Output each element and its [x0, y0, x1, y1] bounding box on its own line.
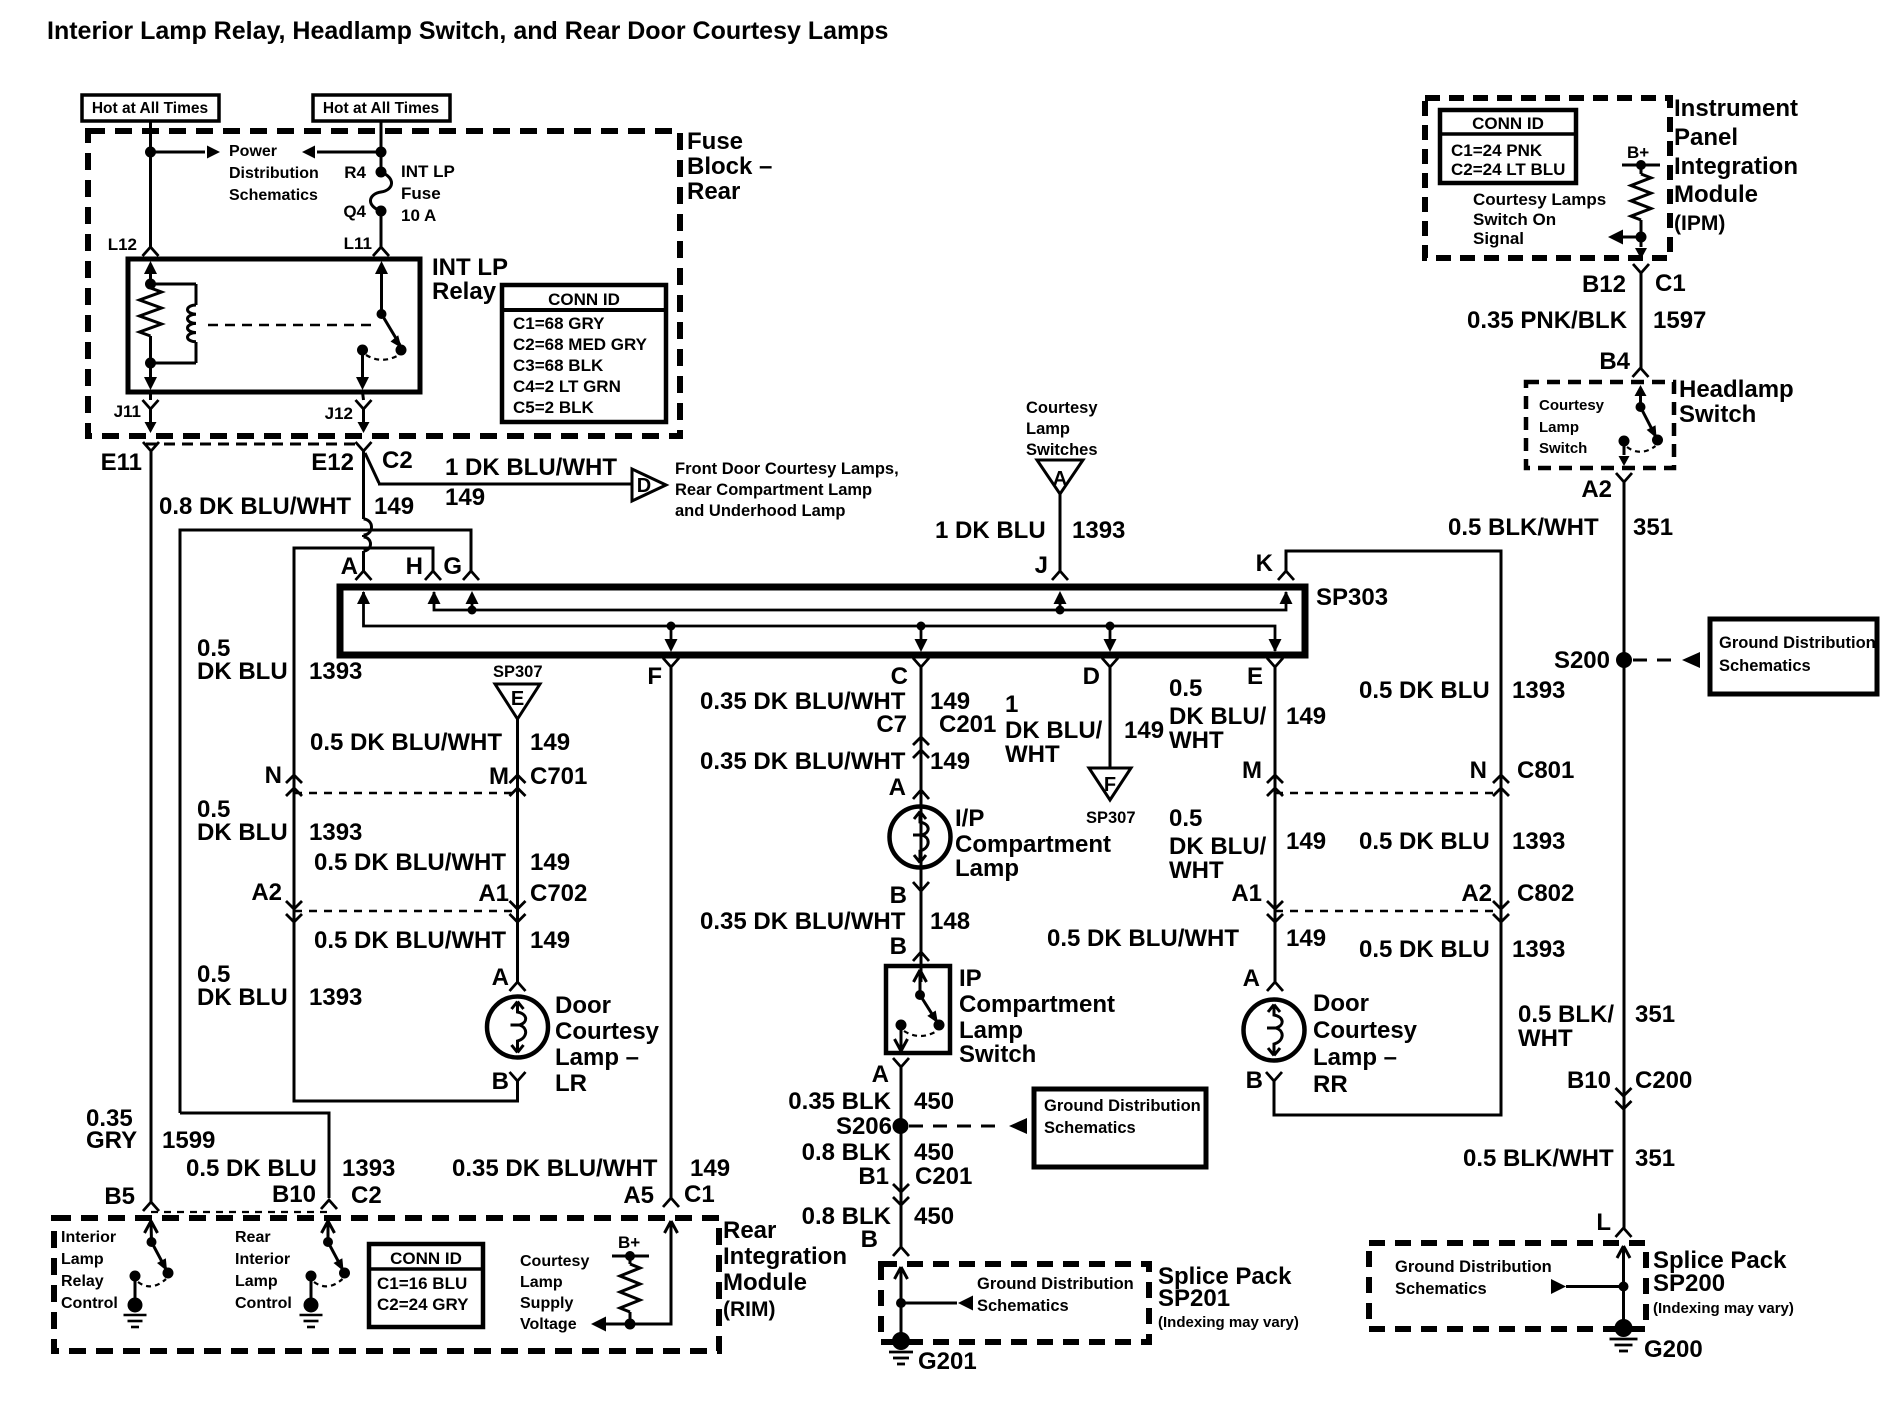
svg-text:Compartment: Compartment	[955, 831, 1111, 858]
off-page triangle D	[632, 469, 666, 501]
svg-text:Hot at All Times: Hot at All Times	[92, 100, 208, 117]
wire B10 feed to splice G	[180, 530, 471, 1113]
svg-text:1393: 1393	[309, 658, 362, 685]
svg-text:C7: C7	[876, 711, 907, 738]
svg-text:0.5: 0.5	[1169, 675, 1202, 702]
svg-text:A: A	[492, 964, 509, 991]
relay switch pivot	[377, 309, 387, 319]
svg-text:Lamp: Lamp	[520, 1274, 563, 1291]
dashed reference to ground distribution (S200)	[1633, 659, 1677, 662]
svg-text:A2: A2	[1581, 476, 1612, 503]
svg-text:0.35 DK BLU/WHT: 0.35 DK BLU/WHT	[452, 1155, 658, 1182]
power label box Hot at All Times (right)	[313, 95, 450, 121]
rear integration module dashed box	[54, 1218, 719, 1351]
svg-text:A2: A2	[251, 879, 282, 906]
svg-text:Interior: Interior	[61, 1229, 116, 1246]
node above fuse	[376, 147, 387, 158]
svg-text:R4: R4	[344, 163, 366, 182]
svg-text:E: E	[511, 688, 524, 710]
svg-text:M: M	[489, 763, 509, 790]
off-page triangle F SP307	[1089, 768, 1131, 800]
svg-text:0.35 BLK: 0.35 BLK	[788, 1088, 891, 1115]
CONN ID table (IPM)	[1440, 110, 1576, 183]
off-page triangle A (courtesy lamp switches)	[1037, 460, 1083, 494]
svg-text:Switch On: Switch On	[1473, 210, 1556, 229]
svg-text:A1: A1	[478, 880, 509, 907]
wire lamp RR return loop	[1274, 919, 1501, 1115]
svg-text:0.5 DK BLU/WHT: 0.5 DK BLU/WHT	[314, 927, 506, 954]
svg-text:Voltage: Voltage	[520, 1316, 577, 1333]
svg-text:Door: Door	[1313, 990, 1369, 1017]
headlamp switch output arrow	[1623, 441, 1626, 455]
svg-text:C1: C1	[1655, 270, 1686, 297]
svg-text:SP307: SP307	[493, 663, 543, 681]
RIM node	[625, 1319, 636, 1330]
svg-text:149: 149	[1124, 717, 1164, 744]
svg-text:Interior: Interior	[235, 1251, 290, 1268]
svg-text:J11: J11	[114, 402, 141, 421]
svg-text:C1=24 PNK: C1=24 PNK	[1451, 141, 1543, 160]
svg-text:0.35 PNK/BLK: 0.35 PNK/BLK	[1467, 307, 1628, 334]
svg-text:149: 149	[1286, 828, 1326, 855]
wire fuse to L11	[380, 211, 383, 247]
svg-text:1393: 1393	[309, 819, 362, 846]
svg-text:Hot at All Times: Hot at All Times	[323, 100, 439, 117]
svg-text:0.8 BLK: 0.8 BLK	[802, 1203, 892, 1230]
wire lamp LR B return loop	[294, 911, 518, 1101]
dashed reference to ground distribution	[909, 1125, 1004, 1128]
svg-text:SP200: SP200	[1653, 1270, 1725, 1297]
relay actuation dashed link	[208, 324, 376, 326]
wire lamp return through C701-C702	[293, 788, 296, 911]
connector C2 dashed line	[146, 443, 357, 446]
svg-text:149: 149	[530, 729, 570, 756]
svg-text:M: M	[1242, 757, 1262, 784]
svg-text:Module: Module	[723, 1269, 807, 1296]
svg-text:Schematics: Schematics	[977, 1297, 1069, 1315]
svg-text:N: N	[1470, 757, 1487, 784]
wire SP307 E to lamp LR	[516, 719, 519, 982]
svg-text:B5: B5	[104, 1183, 135, 1210]
svg-text:D: D	[637, 475, 651, 497]
svg-text:C2: C2	[351, 1182, 382, 1209]
SP303 arrow E	[1269, 639, 1282, 652]
IPM node	[1636, 232, 1647, 243]
svg-text:INT LP: INT LP	[401, 162, 455, 181]
RIM switch 1 ground	[134, 1276, 137, 1301]
svg-text:Compartment: Compartment	[959, 991, 1115, 1018]
svg-text:Supply: Supply	[520, 1295, 573, 1312]
svg-text:C201: C201	[939, 711, 996, 738]
relay resistor	[140, 288, 162, 336]
svg-text:G200: G200	[1644, 1336, 1703, 1363]
svg-text:B1: B1	[858, 1163, 889, 1190]
svg-text:149: 149	[930, 748, 970, 775]
SP303 arrow K	[1280, 591, 1293, 604]
svg-text:Ground Distribution: Ground Distribution	[1395, 1258, 1552, 1276]
svg-text:1393: 1393	[1512, 828, 1565, 855]
RIM wire to A5	[630, 1221, 671, 1324]
wire 1 DK BLU from triangle A to J	[1059, 494, 1062, 571]
wire through C201	[900, 1180, 903, 1204]
svg-text:DK BLU/: DK BLU/	[1169, 833, 1267, 860]
svg-text:0.5 BLK/WHT: 0.5 BLK/WHT	[1463, 1145, 1614, 1172]
svg-text:C: C	[891, 663, 908, 690]
IP compartment lamp switch box	[886, 966, 950, 1053]
svg-text:S200: S200	[1554, 647, 1610, 674]
svg-text:1597: 1597	[1653, 307, 1706, 334]
svg-text:B: B	[861, 1226, 878, 1253]
relay switch feed arrow (L11 side)	[375, 261, 388, 274]
svg-text:WHT: WHT	[1005, 741, 1060, 768]
svg-text:0.5 DK BLU/WHT: 0.5 DK BLU/WHT	[310, 729, 502, 756]
svg-text:K: K	[1256, 550, 1274, 577]
svg-text:149: 149	[445, 484, 485, 511]
svg-text:Lamp: Lamp	[1026, 420, 1070, 438]
svg-text:WHT: WHT	[1518, 1025, 1573, 1052]
svg-text:1393: 1393	[342, 1155, 395, 1182]
svg-text:C1=68 GRY: C1=68 GRY	[513, 314, 605, 333]
svg-text:A: A	[1243, 965, 1260, 992]
svg-text:0.5 DK BLU: 0.5 DK BLU	[1359, 828, 1490, 855]
ground distribution schematics box (S200)	[1710, 619, 1877, 694]
svg-text:Panel: Panel	[1674, 124, 1738, 151]
IP lamp switch symbol	[914, 970, 921, 982]
svg-text:Ground Distribution: Ground Distribution	[1044, 1097, 1201, 1115]
svg-text:N: N	[265, 762, 282, 789]
wire from left Hot at All Times (L12 feed)	[149, 121, 152, 247]
svg-text:1: 1	[1005, 691, 1018, 718]
IPM pull-up resistor	[1640, 165, 1643, 174]
svg-text:149: 149	[1286, 703, 1326, 730]
svg-text:CONN ID: CONN ID	[390, 1249, 462, 1268]
fuse block - rear dashed box	[88, 131, 680, 436]
svg-text:C2=24 GRY: C2=24 GRY	[377, 1295, 469, 1314]
relay coil output wire	[149, 336, 152, 378]
SP303 arrow G	[471, 601, 474, 610]
svg-text:Fuse: Fuse	[401, 184, 441, 203]
wire splice C down	[920, 667, 923, 982]
svg-text:Lamp –: Lamp –	[1313, 1044, 1397, 1071]
relay coil	[151, 283, 197, 286]
svg-text:Ground Distribution: Ground Distribution	[1719, 634, 1876, 652]
relay switch output wire	[361, 350, 364, 377]
SP200 junction node	[1619, 1282, 1629, 1292]
wire S206 to C201 0.8 BLK 450	[900, 1126, 903, 1184]
svg-text:Schematics: Schematics	[1044, 1119, 1136, 1137]
svg-text:C2=24 LT BLU: C2=24 LT BLU	[1451, 160, 1565, 179]
svg-text:Rear Compartment Lamp: Rear Compartment Lamp	[675, 481, 872, 499]
svg-text:Control: Control	[235, 1295, 292, 1312]
svg-text:A: A	[889, 774, 906, 801]
SP303 inner line lower	[364, 592, 1276, 651]
svg-text:A: A	[872, 1061, 889, 1088]
IPM courtesy lamps switch on signal arrow	[1608, 230, 1623, 245]
svg-text:IP: IP	[959, 965, 982, 992]
svg-text:A: A	[341, 553, 358, 580]
wire 0.5 BLK/WHT 351 (upper)	[1623, 482, 1626, 1228]
svg-text:351: 351	[1635, 1145, 1675, 1172]
power label box Hot at All Times (left)	[82, 95, 219, 121]
IPM dashed box	[1425, 98, 1670, 258]
svg-text:Courtesy Lamps: Courtesy Lamps	[1473, 190, 1606, 209]
svg-text:C802: C802	[1517, 880, 1574, 907]
SP201 input arrow	[895, 1267, 902, 1279]
svg-text:C200: C200	[1635, 1067, 1692, 1094]
wire from right Hot at All Times (fuse feed)	[380, 121, 383, 168]
svg-text:G201: G201	[918, 1348, 977, 1375]
svg-text:Rear: Rear	[723, 1217, 776, 1244]
svg-text:Door: Door	[555, 992, 611, 1019]
svg-text:0.5 BLK/WHT: 0.5 BLK/WHT	[1448, 514, 1599, 541]
splice pack SP303 box	[340, 587, 1305, 655]
RIM supply voltage arrow	[591, 1317, 606, 1332]
svg-text:B: B	[890, 882, 907, 909]
svg-text:B10: B10	[272, 1181, 316, 1208]
wire lamp to switch 0.35 DK BLU/WHT 148	[920, 887, 923, 966]
svg-text:351: 351	[1633, 514, 1673, 541]
ground distribution schematics box (S206)	[1034, 1089, 1206, 1167]
svg-text:Switch: Switch	[959, 1041, 1036, 1068]
SP303 node D	[1106, 622, 1115, 631]
CONN ID table (RIM)	[369, 1244, 483, 1327]
svg-text:1 DK BLU/WHT: 1 DK BLU/WHT	[445, 454, 617, 481]
fuse R4 terminal	[376, 167, 387, 178]
IPM output arrow	[1640, 237, 1643, 247]
svg-text:WHT: WHT	[1169, 857, 1224, 884]
svg-text:1393: 1393	[1512, 936, 1565, 963]
svg-text:148: 148	[930, 908, 970, 935]
splice pack SP200 dashed box	[1369, 1243, 1646, 1329]
svg-text:F: F	[647, 663, 662, 690]
svg-text:Relay: Relay	[432, 278, 497, 305]
svg-text:Schematics: Schematics	[1719, 657, 1811, 675]
svg-text:B10: B10	[1567, 1067, 1611, 1094]
SP303 arrow D	[1109, 626, 1112, 641]
svg-text:Signal: Signal	[1473, 229, 1524, 248]
arrow to Power Distribution Schematics	[151, 151, 206, 154]
svg-text:0.8 DK BLU/WHT: 0.8 DK BLU/WHT	[159, 493, 351, 520]
SP303 arrow H	[428, 591, 441, 604]
svg-text:CONN ID: CONN ID	[1472, 114, 1544, 133]
svg-text:J12: J12	[325, 404, 353, 423]
svg-text:SP201: SP201	[1158, 1285, 1230, 1312]
svg-text:1393: 1393	[1512, 677, 1565, 704]
svg-text:1 DK BLU: 1 DK BLU	[935, 517, 1046, 544]
svg-text:Block –: Block –	[687, 153, 772, 180]
svg-text:L11: L11	[344, 234, 372, 253]
svg-text:10 A: 10 A	[401, 206, 436, 225]
I/P compartment lamp	[890, 807, 951, 868]
SP303 arrow F	[670, 626, 673, 641]
ground G200	[1615, 1319, 1633, 1337]
svg-text:450: 450	[914, 1088, 954, 1115]
svg-text:GRY: GRY	[86, 1127, 137, 1154]
svg-text:C3=68 BLK: C3=68 BLK	[513, 356, 604, 375]
svg-text:Headlamp: Headlamp	[1679, 376, 1794, 403]
SP303 inner line upper	[434, 592, 1286, 610]
wire splice D down	[1109, 667, 1112, 768]
svg-text:B: B	[890, 933, 907, 960]
relay coil top node	[145, 279, 156, 290]
relay box INT LP Relay	[128, 259, 420, 392]
svg-text:C201: C201	[915, 1163, 972, 1190]
svg-text:Integration: Integration	[1674, 153, 1798, 180]
svg-text:Lamp: Lamp	[955, 855, 1019, 882]
svg-text:(IPM): (IPM)	[1674, 212, 1725, 235]
svg-text:Switch: Switch	[1539, 440, 1587, 457]
svg-text:C702: C702	[530, 880, 587, 907]
svg-text:I/P: I/P	[955, 805, 984, 832]
SP303 arrow C	[920, 626, 923, 641]
svg-text:0.35 DK BLU/WHT: 0.35 DK BLU/WHT	[700, 908, 906, 935]
svg-text:DK BLU: DK BLU	[197, 984, 288, 1011]
connector pin J12	[363, 392, 364, 400]
svg-text:Q4: Q4	[343, 202, 366, 221]
svg-text:C1: C1	[684, 1181, 715, 1208]
SP303 node C	[917, 622, 926, 631]
svg-text:Lamp: Lamp	[1539, 419, 1579, 436]
svg-text:0.5 DK BLU: 0.5 DK BLU	[186, 1155, 317, 1182]
svg-text:L12: L12	[108, 235, 137, 254]
svg-text:C701: C701	[530, 763, 587, 790]
CONN ID table (fuse block)	[502, 285, 666, 422]
svg-text:149: 149	[374, 493, 414, 520]
svg-text:D: D	[1083, 663, 1100, 690]
SP303 node G	[468, 606, 477, 615]
wire F to A5 (0.35 DK BLU/WHT)	[670, 667, 673, 1198]
svg-text:E12: E12	[311, 449, 354, 476]
svg-text:450: 450	[914, 1203, 954, 1230]
svg-text:0.35 DK BLU/WHT: 0.35 DK BLU/WHT	[700, 688, 906, 715]
svg-text:0.35 DK BLU/WHT: 0.35 DK BLU/WHT	[700, 748, 906, 775]
svg-text:J: J	[1035, 552, 1048, 579]
svg-text:DK BLU/: DK BLU/	[1169, 703, 1267, 730]
svg-text:0.5 DK BLU: 0.5 DK BLU	[1359, 677, 1490, 704]
svg-text:LR: LR	[555, 1070, 587, 1097]
svg-text:E11: E11	[101, 449, 142, 476]
svg-text:A2: A2	[1461, 880, 1492, 907]
connector C802 dashed line	[1275, 910, 1501, 912]
wire E11 to B5 (0.35 GRY)	[150, 451, 153, 1202]
svg-text:Lamp: Lamp	[959, 1017, 1023, 1044]
svg-text:A1: A1	[1231, 880, 1262, 907]
svg-text:149: 149	[1286, 925, 1326, 952]
svg-text:Front Door Courtesy Lamps,: Front Door Courtesy Lamps,	[675, 460, 899, 478]
svg-text:0.5: 0.5	[1169, 805, 1202, 832]
node on L12 feed	[145, 147, 156, 158]
svg-text:0.5 DK BLU: 0.5 DK BLU	[1359, 936, 1490, 963]
svg-text:L: L	[1596, 1209, 1611, 1236]
relay coil feed arrow (L12 side)	[144, 261, 157, 274]
svg-text:149: 149	[690, 1155, 730, 1182]
svg-text:1599: 1599	[162, 1127, 215, 1154]
svg-text:A: A	[1053, 468, 1067, 490]
svg-text:B+: B+	[1627, 143, 1649, 162]
svg-text:H: H	[406, 553, 423, 580]
svg-text:Switches: Switches	[1026, 441, 1098, 459]
svg-text:351: 351	[1635, 1001, 1675, 1028]
arrow from Power Distribution Schematics	[302, 146, 315, 159]
svg-text:B: B	[1246, 1067, 1263, 1094]
wire C801 to C802 (right)	[1500, 778, 1503, 922]
svg-text:(RIM): (RIM)	[723, 1298, 775, 1321]
svg-text:0.5 DK BLU/WHT: 0.5 DK BLU/WHT	[1047, 925, 1239, 952]
svg-text:(Indexing may vary): (Indexing may vary)	[1653, 1300, 1794, 1317]
wire splice E down to lamp RR	[1274, 667, 1277, 982]
svg-text:B4: B4	[1599, 348, 1630, 375]
connector C702 dashed line	[294, 910, 518, 912]
relay switch arm	[382, 314, 401, 345]
svg-text:C801: C801	[1517, 757, 1574, 784]
wire 0.35 PNK/BLK 1597	[1640, 273, 1643, 368]
SP200 input arrow	[1617, 1246, 1624, 1258]
SP303 arrow J	[1059, 601, 1062, 610]
door courtesy lamp LR	[487, 997, 548, 1058]
SP201 junction node	[896, 1298, 906, 1308]
svg-text:149: 149	[530, 927, 570, 954]
splice pack SP201 dashed box	[881, 1264, 1149, 1342]
svg-text:CONN ID: CONN ID	[548, 290, 620, 309]
svg-text:and Underhood Lamp: and Underhood Lamp	[675, 502, 846, 520]
svg-text:Courtesy: Courtesy	[1313, 1017, 1418, 1044]
svg-text:Distribution: Distribution	[229, 165, 319, 182]
svg-text:INT LP: INT LP	[432, 254, 508, 281]
svg-text:B12: B12	[1582, 271, 1626, 298]
svg-text:G: G	[443, 553, 462, 580]
svg-text:Integration: Integration	[723, 1243, 847, 1270]
relay coil bottom node	[145, 358, 156, 369]
svg-text:F: F	[1104, 774, 1116, 796]
svg-text:Rear: Rear	[687, 178, 740, 205]
svg-text:SP303: SP303	[1316, 584, 1388, 611]
svg-text:A5: A5	[623, 1182, 654, 1209]
RIM switch 2 ground	[310, 1276, 313, 1301]
relay switch contact	[357, 345, 368, 356]
svg-text:Interior Lamp Relay, Headlamp: Interior Lamp Relay, Headlamp Switch, an…	[47, 17, 888, 45]
svg-text:Relay: Relay	[61, 1273, 104, 1290]
svg-text:Control: Control	[61, 1295, 118, 1312]
svg-text:Courtesy: Courtesy	[1026, 399, 1098, 417]
svg-text:149: 149	[530, 849, 570, 876]
wire lamp LR return to splice H	[294, 548, 433, 788]
svg-text:(Indexing may vary): (Indexing may vary)	[1158, 1314, 1299, 1331]
svg-text:B+: B+	[618, 1233, 640, 1252]
svg-text:C2=68 MED GRY: C2=68 MED GRY	[513, 335, 648, 354]
IP lamp switch output arrow	[900, 1025, 903, 1051]
svg-text:450: 450	[914, 1139, 954, 1166]
svg-text:0.5 DK BLU/WHT: 0.5 DK BLU/WHT	[314, 849, 506, 876]
RIM connector dashed link	[151, 1211, 329, 1213]
svg-text:Power: Power	[229, 143, 277, 160]
svg-text:DK BLU/: DK BLU/	[1005, 717, 1103, 744]
ground G201	[892, 1332, 910, 1350]
svg-text:1393: 1393	[1072, 517, 1125, 544]
svg-text:Courtesy: Courtesy	[520, 1253, 589, 1270]
fuse Q4 terminal	[376, 206, 387, 217]
svg-text:Lamp: Lamp	[61, 1251, 104, 1268]
RIM courtesy lamp supply resistor	[629, 1256, 632, 1264]
svg-text:RR: RR	[1313, 1071, 1348, 1098]
svg-text:Schematics: Schematics	[1395, 1280, 1487, 1298]
wire C201 to SP201 0.8 BLK 450	[900, 1200, 903, 1247]
SP303 node J	[1056, 606, 1065, 615]
connector C701 dashed line	[294, 792, 518, 794]
wire splice K to C801 (0.5 DK BLU)	[1286, 551, 1501, 781]
svg-text:Rear: Rear	[235, 1229, 271, 1246]
svg-text:0.5 BLK/: 0.5 BLK/	[1518, 1001, 1614, 1028]
connector pin J11	[149, 392, 152, 400]
